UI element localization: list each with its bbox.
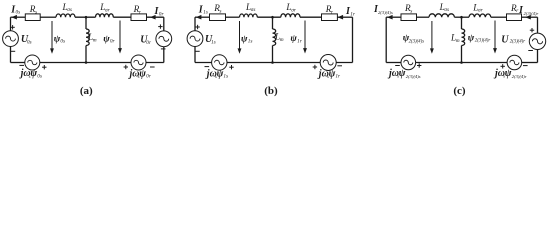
svg-text:m: m <box>93 38 97 44</box>
svg-text:σs: σs <box>251 7 256 13</box>
svg-text:m: m <box>280 37 284 43</box>
svg-text:1s: 1s <box>248 39 253 45</box>
svg-text:2(3)(4)r: 2(3)(4)r <box>475 39 491 44</box>
svg-text:1s: 1s <box>203 10 208 16</box>
svg-text:s: s <box>35 9 37 15</box>
svg-text:(a): (a) <box>80 85 93 97</box>
svg-text:σs: σs <box>444 7 449 13</box>
svg-text:ψ: ψ <box>468 32 475 43</box>
svg-text:s: s <box>219 8 221 14</box>
svg-text:s: s <box>410 8 412 14</box>
svg-text:0s: 0s <box>16 10 21 16</box>
svg-text:1s: 1s <box>211 40 216 46</box>
svg-text:0s: 0s <box>60 39 65 45</box>
svg-text:m: m <box>456 38 460 44</box>
svg-text:2(3)(4)s: 2(3)(4)s <box>409 39 425 44</box>
svg-text:(c): (c) <box>453 85 466 97</box>
svg-text:2(3)(4)r: 2(3)(4)r <box>524 11 539 16</box>
svg-text:0s: 0s <box>37 74 42 80</box>
svg-text:2(3)(4)r: 2(3)(4)r <box>510 39 526 44</box>
svg-text:2(3)(4)s: 2(3)(4)s <box>378 10 393 15</box>
svg-text:1s: 1s <box>223 74 228 80</box>
svg-text:ψ: ψ <box>505 68 512 79</box>
svg-text:0s: 0s <box>27 40 32 46</box>
svg-text:U: U <box>501 34 509 45</box>
svg-text:ψ: ψ <box>399 68 406 79</box>
svg-text:σs: σs <box>67 7 72 13</box>
svg-text:2(3)(4)r: 2(3)(4)r <box>512 74 527 79</box>
svg-text:(b): (b) <box>264 85 278 97</box>
svg-text:2(3)(4)s: 2(3)(4)s <box>406 74 421 79</box>
